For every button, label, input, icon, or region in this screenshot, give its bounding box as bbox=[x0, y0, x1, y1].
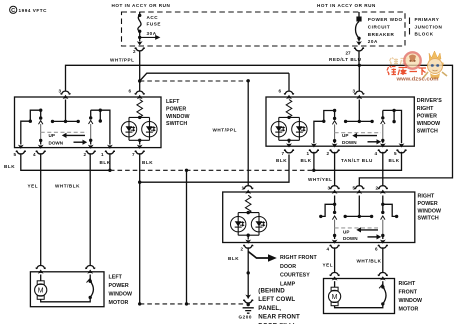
svg-text:BLK: BLK bbox=[301, 158, 312, 163]
label: RIGHT FRONT WINDOW MOTOR bbox=[399, 281, 423, 313]
svg-text:LAMP: LAMP bbox=[280, 281, 296, 287]
svg-text:2: 2 bbox=[327, 151, 330, 156]
right armature column from pin 2 bbox=[380, 196, 386, 244]
node: illumination ground splice bbox=[138, 181, 141, 184]
svg-text:BLK: BLK bbox=[276, 158, 287, 163]
wire: WHT/PPL down to right switch pin 1 bbox=[247, 81, 249, 186]
connector pin 1 (left switch bottom) bbox=[101, 151, 115, 157]
LED bus rectangle (right switch) bbox=[238, 211, 259, 237]
node: ground bus junction (driver's) bbox=[312, 169, 315, 172]
wire: YEL pin 4 to left motor bbox=[40, 153, 42, 265]
fuse ACC 30A bbox=[138, 12, 161, 36]
svg-text:BLK: BLK bbox=[142, 160, 153, 165]
fixed contact (driver's left group) bbox=[333, 111, 336, 121]
svg-text:20A: 20A bbox=[368, 39, 378, 44]
wire: WHT/PPL splice down to left switch pin 6 bbox=[139, 81, 141, 91]
svg-text:FUSE: FUSE bbox=[147, 21, 161, 26]
svg-text:2: 2 bbox=[376, 186, 379, 191]
right contact rail to pin 5 (driver's) bbox=[383, 109, 405, 148]
wire: ground bus drop bbox=[186, 170, 188, 304]
connector pin 3 (left switch top) bbox=[59, 89, 71, 100]
left motor M1 bbox=[35, 275, 91, 302]
svg-text:WINDOW: WINDOW bbox=[109, 292, 133, 298]
node: WHT/PPL to right switch bbox=[247, 79, 250, 82]
left motor reversing arc bbox=[87, 275, 94, 300]
wire: BLK pin 2 down to ground bbox=[247, 247, 249, 298]
svg-text:7: 7 bbox=[132, 152, 135, 157]
label: LEFT POWER WINDOW MOTOR bbox=[109, 275, 133, 307]
svg-text:JUNCTION: JUNCTION bbox=[415, 24, 443, 29]
svg-text:4: 4 bbox=[327, 247, 330, 252]
connector pin 1 (driver's bottom) bbox=[307, 150, 320, 156]
svg-text:7: 7 bbox=[282, 151, 285, 156]
connector pin 3 (right switch top) bbox=[328, 186, 340, 194]
svg-text:4: 4 bbox=[33, 152, 36, 157]
svg-text:LEFT: LEFT bbox=[166, 99, 180, 105]
svg-text:BLOCK: BLOCK bbox=[415, 32, 434, 37]
node: WHT/PPL splice bbox=[138, 79, 141, 82]
label: LEFT POWER WINDOW SWITCH bbox=[166, 99, 190, 127]
svg-text:PANEL,: PANEL, bbox=[258, 305, 281, 312]
svg-text:1: 1 bbox=[307, 151, 310, 156]
left armature column from pin 3 bbox=[332, 196, 338, 244]
svg-text:BLK: BLK bbox=[100, 160, 111, 165]
fixed contact rail (left, dead-end) bbox=[319, 204, 335, 218]
svg-text:POWER: POWER bbox=[417, 113, 437, 119]
svg-text:WINDOW: WINDOW bbox=[418, 208, 442, 214]
right contact rail to pin 1 bbox=[91, 109, 113, 149]
wire: dashed ground bus to G200 bbox=[140, 303, 244, 305]
connector pin 5 (driver's bottom) bbox=[394, 150, 407, 156]
wire: LED common to pin 7 bbox=[137, 140, 143, 149]
svg-text:DOWN: DOWN bbox=[342, 140, 357, 145]
label: ground location note bbox=[258, 288, 300, 324]
connector pin 4 (left switch bottom) bbox=[33, 151, 46, 157]
connector pin 2 (driver's bottom) bbox=[327, 150, 340, 156]
illumination LED left (right switch) bbox=[231, 217, 246, 232]
node: ground bus tap bbox=[185, 169, 188, 172]
wire: WHT/PPL down to node bbox=[139, 51, 141, 82]
wire: illumination ground bus to driver's pin 7 bbox=[140, 155, 289, 183]
svg-text:DRIVER'S: DRIVER'S bbox=[417, 98, 443, 104]
illumination LED left (driver's) bbox=[271, 122, 286, 137]
svg-text:30A: 30A bbox=[147, 31, 157, 36]
svg-text:BLK: BLK bbox=[389, 158, 400, 163]
svg-text:POWER WDO: POWER WDO bbox=[368, 17, 403, 22]
label: DRIVER'S RIGHT POWER WINDOW SWITCH bbox=[417, 98, 443, 134]
wire: YEL pin 4 to right motor bbox=[334, 247, 336, 272]
wire: LED common to pin 2 (right switch) bbox=[245, 235, 251, 244]
illumination resistor (left switch) bbox=[137, 100, 143, 118]
svg-text:6: 6 bbox=[375, 247, 378, 252]
wire: dashed WHT/PPL branch to right switch bbox=[140, 80, 249, 82]
svg-text:WHT/BLK: WHT/BLK bbox=[55, 184, 80, 189]
svg-text:3: 3 bbox=[353, 89, 356, 94]
circuit breaker: power window 20A bbox=[356, 12, 403, 44]
svg-text:G200: G200 bbox=[239, 315, 252, 320]
svg-text:1: 1 bbox=[242, 186, 245, 191]
wire: pin 5 feed to contact bar (right switch) bbox=[358, 196, 360, 217]
svg-text:3: 3 bbox=[59, 89, 62, 94]
svg-text:LEFT: LEFT bbox=[109, 275, 123, 281]
svg-text:ACC: ACC bbox=[147, 15, 159, 20]
svg-text:POWER: POWER bbox=[109, 283, 129, 289]
wire: LED common to pin 7 (driver's) bbox=[286, 140, 292, 147]
svg-text:WHT/PPL: WHT/PPL bbox=[110, 58, 135, 63]
red text wei-ku-yi-xia drawn as strokes bbox=[387, 66, 426, 75]
svg-text:UP: UP bbox=[342, 133, 348, 138]
illumination LED right bbox=[142, 122, 157, 137]
svg-text:WHT/YEL: WHT/YEL bbox=[308, 177, 333, 182]
connector (left motor, WHT/BLK input) bbox=[85, 266, 95, 274]
svg-text:2: 2 bbox=[84, 152, 87, 157]
connector pin 6 (right switch bottom) bbox=[375, 245, 388, 252]
label: RIGHT FRONT DOOR COURTESY LAMP bbox=[280, 255, 317, 287]
node: ground bus junction bbox=[108, 169, 111, 172]
right power window switch box bbox=[223, 192, 415, 243]
movable contact armature to pin 4 (driver's) bbox=[380, 120, 386, 147]
svg-text:MOTOR: MOTOR bbox=[109, 300, 129, 306]
svg-text:(BEHIND: (BEHIND bbox=[258, 288, 285, 295]
node: RED/LT BLU splice bbox=[358, 64, 361, 67]
wire: BLK pin 1 down bbox=[109, 153, 111, 170]
svg-text:5: 5 bbox=[14, 152, 17, 157]
wire: feed down to driver's switch pin 6 bbox=[288, 73, 290, 91]
switch motion indicator UP/DOWN (right switch) bbox=[335, 227, 382, 241]
svg-text:BLK: BLK bbox=[228, 256, 239, 261]
svg-text:HOT IN ACCY OR RUN: HOT IN ACCY OR RUN bbox=[112, 3, 171, 8]
wire: BLK pin 5 to ground bus bbox=[21, 153, 110, 170]
wire: pin 3 feed to contact bar (driver's) bbox=[358, 100, 360, 122]
connector pin 2 (right switch bottom, BLK) bbox=[241, 245, 254, 252]
connector pin 4 (driver's bottom) bbox=[375, 150, 388, 156]
connector (right motor, WHT/BLK input) bbox=[378, 273, 388, 281]
ground G200 bbox=[239, 295, 254, 320]
svg-text:YEL: YEL bbox=[28, 184, 39, 189]
svg-text:RED/LT BLU: RED/LT BLU bbox=[329, 57, 362, 62]
svg-text:UP: UP bbox=[343, 230, 349, 235]
svg-text:6: 6 bbox=[129, 89, 132, 94]
svg-text:WINDOW: WINDOW bbox=[399, 298, 423, 304]
left contact rail to pin 5 bbox=[18, 109, 43, 149]
switch motion indicator UP/DOWN (left switch) bbox=[41, 132, 87, 145]
svg-text:HOT IN ACCY OR RUN: HOT IN ACCY OR RUN bbox=[317, 3, 376, 8]
svg-text:2: 2 bbox=[241, 247, 244, 252]
svg-text:SWITCH: SWITCH bbox=[418, 216, 439, 222]
connector pin 27 (breaker output) bbox=[346, 41, 365, 55]
svg-text:C: C bbox=[11, 8, 15, 14]
driver's right power window switch box bbox=[266, 97, 414, 146]
svg-text:6: 6 bbox=[279, 89, 282, 94]
node: BLK ground junction (left) bbox=[138, 302, 141, 305]
wire: fuse output with branch arrow bbox=[138, 31, 160, 41]
wire: RED/LT BLU down to node bbox=[358, 51, 360, 66]
svg-text:DOWN: DOWN bbox=[49, 140, 64, 145]
svg-text:SWITCH: SWITCH bbox=[166, 121, 187, 127]
left contact rail to pin 1 (driver's) bbox=[311, 109, 336, 148]
label: RIGHT POWER WINDOW SWITCH bbox=[418, 194, 442, 222]
svg-text:POWER: POWER bbox=[166, 106, 186, 112]
hanging fixed contact (driver's right group) bbox=[392, 110, 395, 123]
svg-text:UP: UP bbox=[49, 133, 55, 138]
connector pin 6 (driver's switch top) bbox=[279, 89, 295, 100]
svg-text:WINDOW: WINDOW bbox=[417, 121, 441, 127]
svg-text:BLK: BLK bbox=[4, 164, 15, 169]
svg-text:RIGHT: RIGHT bbox=[417, 106, 434, 112]
wire: main feed line left to left switch pin 3 bbox=[66, 65, 360, 91]
svg-text:www.dzsc.com: www.dzsc.com bbox=[396, 76, 439, 82]
connector pin 2 (left switch bottom) bbox=[84, 151, 96, 157]
contact bar with splice dots bbox=[51, 120, 80, 123]
wire: diagonal from splice to feed line bbox=[140, 73, 289, 81]
fixed contact on rail end (driver's right group) bbox=[381, 110, 384, 119]
svg-text:TAN/LT BLU: TAN/LT BLU bbox=[341, 158, 373, 163]
connector (right motor, YEL input) bbox=[330, 273, 340, 281]
svg-text:RIGHT: RIGHT bbox=[418, 194, 435, 200]
LED bus rectangle (driver's) bbox=[279, 116, 300, 142]
illumination LED right (right switch) bbox=[251, 217, 266, 232]
illumination resistor (right switch) bbox=[245, 195, 251, 213]
branch arrow to right front door courtesy lamp bbox=[248, 252, 277, 262]
wire: dashed ground bus to right bbox=[110, 169, 314, 171]
copyright notice bbox=[10, 6, 47, 14]
left power window motor box bbox=[30, 272, 104, 307]
svg-text:4: 4 bbox=[375, 151, 378, 156]
svg-text:WHT/BLK: WHT/BLK bbox=[357, 259, 382, 264]
switch motion indicator UP/DOWN (driver's) bbox=[335, 133, 382, 145]
illumination LED right (driver's) bbox=[292, 122, 307, 137]
right motor reversing arc bbox=[379, 281, 386, 305]
svg-text:M: M bbox=[38, 288, 44, 295]
wire: WHT/BLK pin 6 to right motor bbox=[382, 247, 384, 272]
node: splice on BLK ground wire bbox=[247, 271, 250, 274]
fixed contact (left) bbox=[39, 110, 42, 120]
svg-text:RIGHT FRONT: RIGHT FRONT bbox=[280, 255, 317, 261]
svg-text:SWITCH: SWITCH bbox=[417, 129, 438, 135]
svg-text:2: 2 bbox=[133, 49, 136, 54]
wire: WHT/BLK pin 2 to left motor bbox=[89, 153, 91, 265]
movable contact armature to pin 2 (driver's) bbox=[332, 121, 338, 148]
illumination resistor (driver's switch) bbox=[286, 100, 292, 118]
svg-text:PRIMARY: PRIMARY bbox=[415, 17, 440, 22]
svg-text:DOOR: DOOR bbox=[280, 264, 296, 270]
svg-text:LEFT COWL: LEFT COWL bbox=[258, 296, 295, 303]
connector (left motor, YEL input) bbox=[36, 266, 46, 274]
svg-text:POWER: POWER bbox=[418, 201, 438, 207]
svg-text:FRONT: FRONT bbox=[399, 289, 418, 295]
hanging fixed contact (center right) bbox=[99, 110, 102, 123]
connector pin 6 (left switch top) bbox=[129, 89, 145, 100]
right front window motor box bbox=[324, 279, 395, 314]
label: PRIMARY JUNCTION BLOCK bbox=[410, 17, 443, 37]
svg-text:NEAR FRONT: NEAR FRONT bbox=[258, 314, 300, 321]
svg-text:COURTESY: COURTESY bbox=[280, 273, 310, 279]
illumination LED left bbox=[121, 122, 136, 137]
svg-text:M: M bbox=[332, 294, 338, 301]
svg-text:WHT/PPL: WHT/PPL bbox=[212, 128, 237, 133]
svg-text:WINDOW: WINDOW bbox=[166, 114, 190, 120]
connector pin 2 (right switch top) bbox=[376, 186, 388, 194]
wire: BLK pin 7 down bbox=[139, 153, 141, 304]
svg-text:CIRCUIT: CIRCUIT bbox=[368, 25, 390, 30]
wire: feed right and down to right switch pin 5 bbox=[359, 65, 452, 185]
svg-text:5: 5 bbox=[353, 186, 356, 191]
wire: BLK pin 1 to ground bus bbox=[313, 152, 315, 171]
wire: RED/LT BLU down to driver's switch pin 3 bbox=[358, 65, 360, 91]
svg-text:RIGHT: RIGHT bbox=[399, 281, 416, 287]
wire: TAN/LT BLU pin 4 to right switch pin 2 bbox=[382, 152, 384, 186]
movable contact armature to pin 2 bbox=[88, 120, 94, 149]
svg-text:1994 VFTC: 1994 VFTC bbox=[19, 8, 48, 13]
svg-text:1: 1 bbox=[101, 152, 104, 157]
fixed contact (right group) bbox=[89, 110, 92, 119]
wire: pin 3 feed to contact bar bbox=[65, 100, 67, 122]
svg-text:27: 27 bbox=[346, 51, 352, 56]
right motor M2 bbox=[329, 281, 383, 308]
svg-text:DOWN: DOWN bbox=[343, 236, 358, 241]
connector pin 3 (driver's switch top) bbox=[353, 89, 365, 100]
wire: ground bus solid to pin 5 bbox=[314, 152, 402, 171]
connector pin 7 (left switch bottom) bbox=[132, 151, 145, 157]
connector pin 1 (right switch top) bbox=[242, 186, 254, 194]
watermark: dzsc.com logo bbox=[387, 51, 447, 82]
connector pin 5 (left switch bottom) bbox=[14, 151, 26, 157]
wire: WHT/YEL pin 2 to right switch pin 3 bbox=[334, 152, 336, 186]
primary junction block dashed box bbox=[122, 12, 406, 46]
svg-text:5: 5 bbox=[394, 151, 397, 156]
svg-text:MOTOR: MOTOR bbox=[399, 306, 419, 312]
connector pin 2 (fuse output) bbox=[133, 41, 145, 54]
movable contact armature to pin 4 bbox=[38, 121, 44, 149]
svg-text:BREAKER: BREAKER bbox=[368, 32, 395, 37]
svg-text:3: 3 bbox=[328, 186, 331, 191]
connector pin 7 (driver's bottom) bbox=[282, 150, 295, 156]
node: BLK ground junction (center) bbox=[185, 302, 188, 305]
left power window switch box bbox=[15, 97, 162, 148]
contact bar with splice dots (driver's) bbox=[344, 120, 374, 123]
contact bar with splice dots (right switch) bbox=[344, 215, 374, 218]
LED bus rectangle bbox=[129, 116, 150, 142]
connector pin 4 (right switch bottom) bbox=[327, 245, 340, 252]
svg-text:YEL: YEL bbox=[323, 263, 334, 268]
connector pin 5 (right switch top) bbox=[353, 186, 365, 194]
fixed contact rail (right, dead-end) bbox=[383, 204, 399, 218]
